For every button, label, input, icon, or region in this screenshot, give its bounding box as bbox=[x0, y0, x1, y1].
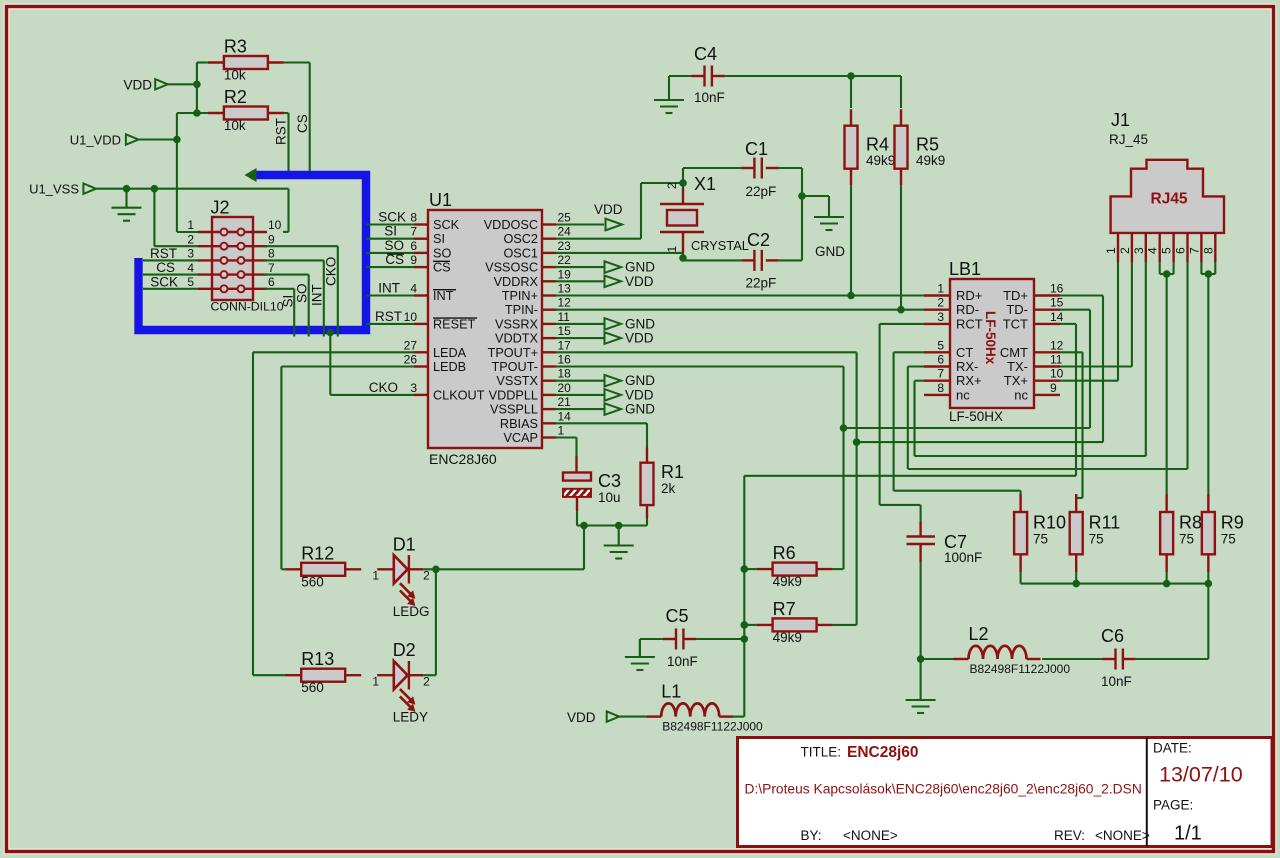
svg-text:INT: INT bbox=[433, 289, 454, 303]
svg-text:D:\Proteus Kapcsolások\ENC28j6: D:\Proteus Kapcsolások\ENC28j60\enc28j60… bbox=[745, 782, 1142, 797]
svg-text:49k9: 49k9 bbox=[866, 153, 895, 168]
wire R7 right bbox=[833, 624, 857, 626]
svg-text:10k: 10k bbox=[224, 68, 246, 83]
svg-text:6: 6 bbox=[410, 239, 417, 253]
svg-text:9: 9 bbox=[1050, 381, 1057, 395]
svg-text:49k9: 49k9 bbox=[773, 630, 802, 645]
wire RX- to J1 pin6 bbox=[908, 262, 1188, 469]
svg-text:2: 2 bbox=[1118, 247, 1132, 254]
capacitor C1 bbox=[683, 139, 779, 199]
svg-text:8: 8 bbox=[268, 247, 275, 261]
svg-text:16: 16 bbox=[1050, 282, 1064, 296]
svg-text:3: 3 bbox=[1132, 247, 1146, 254]
svg-text:15: 15 bbox=[1050, 296, 1064, 310]
svg-text:VSSTX: VSSTX bbox=[496, 374, 538, 388]
wire TPOUT- bbox=[556, 367, 847, 570]
resistor R3 bbox=[208, 37, 284, 83]
svg-text:RST: RST bbox=[150, 246, 177, 261]
svg-text:INT: INT bbox=[310, 284, 325, 306]
svg-text:RCT: RCT bbox=[956, 316, 983, 331]
svg-text:C6: C6 bbox=[1101, 626, 1124, 646]
svg-text:RESET: RESET bbox=[433, 317, 476, 331]
svg-text:SI: SI bbox=[384, 224, 397, 239]
svg-text:LEDB: LEDB bbox=[433, 360, 466, 374]
svg-text:R8: R8 bbox=[1179, 513, 1202, 533]
wire J2 pin5 SCK bbox=[143, 274, 198, 289]
svg-text:CLKOUT: CLKOUT bbox=[433, 388, 485, 402]
terminal VDD L1 bbox=[567, 710, 646, 725]
svg-text:nc: nc bbox=[1014, 387, 1028, 402]
svg-text:2: 2 bbox=[423, 569, 430, 583]
svg-text:1: 1 bbox=[937, 282, 944, 296]
svg-text:SO: SO bbox=[433, 246, 451, 260]
svg-text:PAGE:: PAGE: bbox=[1153, 798, 1193, 813]
svg-text:10k: 10k bbox=[224, 118, 246, 133]
svg-text:CKO: CKO bbox=[324, 257, 339, 286]
ground U1_VSS bbox=[112, 189, 142, 221]
svg-text:10: 10 bbox=[268, 218, 282, 232]
wire U1_VDD net bbox=[138, 113, 208, 232]
title block bbox=[738, 738, 1273, 847]
svg-text:2: 2 bbox=[937, 296, 944, 310]
wire bus-CS bbox=[366, 252, 414, 267]
svg-text:10nF: 10nF bbox=[1101, 674, 1132, 689]
svg-text:SCK: SCK bbox=[150, 274, 178, 289]
svg-text:REV:: REV: bbox=[1054, 828, 1085, 843]
wire D1 cathode node bbox=[423, 526, 584, 574]
terminal U1_VSS bbox=[29, 182, 96, 197]
resistor R2 bbox=[208, 87, 284, 133]
svg-text:B82498F1122J000: B82498F1122J000 bbox=[970, 662, 1071, 676]
wire TPIN- bbox=[556, 309, 924, 311]
svg-text:560: 560 bbox=[301, 680, 324, 695]
capacitor C5 bbox=[640, 606, 698, 669]
svg-text:VSSOSC: VSSOSC bbox=[485, 261, 538, 275]
wire J1 pins7+8 to R9 bbox=[1201, 262, 1215, 494]
power terminal GND pin-row 7 bbox=[556, 316, 655, 331]
svg-text:U1_VSS: U1_VSS bbox=[29, 182, 79, 197]
svg-text:2: 2 bbox=[187, 232, 194, 246]
wire VDD-R2R3 bbox=[168, 63, 208, 117]
wire C3/R1 ground node bbox=[577, 511, 647, 529]
svg-text:7: 7 bbox=[937, 367, 944, 381]
svg-text:C4: C4 bbox=[694, 44, 717, 64]
inductor L2 bbox=[954, 624, 1071, 676]
svg-text:10: 10 bbox=[404, 310, 418, 324]
svg-text:TPOUT+: TPOUT+ bbox=[488, 346, 538, 360]
svg-text:15: 15 bbox=[558, 324, 572, 338]
svg-text:RD-: RD- bbox=[956, 302, 979, 317]
svg-text:9: 9 bbox=[410, 253, 417, 267]
ground C3 bbox=[604, 526, 634, 559]
svg-text:1: 1 bbox=[372, 569, 379, 583]
svg-text:VDD: VDD bbox=[625, 387, 654, 402]
svg-text:26: 26 bbox=[404, 353, 418, 367]
power terminal VDD pin25 bbox=[556, 202, 623, 230]
svg-text:75: 75 bbox=[1089, 532, 1104, 547]
svg-text:5: 5 bbox=[187, 275, 194, 289]
svg-text:J2: J2 bbox=[211, 198, 230, 218]
svg-text:100nF: 100nF bbox=[944, 550, 982, 565]
wire C6-R9 bbox=[1136, 658, 1208, 660]
wire bus-INT bbox=[366, 281, 414, 296]
svg-text:INT: INT bbox=[378, 281, 400, 296]
svg-text:CS: CS bbox=[156, 260, 175, 275]
svg-text:17: 17 bbox=[558, 338, 572, 352]
svg-text:5: 5 bbox=[1160, 247, 1174, 254]
svg-text:SO: SO bbox=[295, 283, 310, 303]
svg-text:R10: R10 bbox=[1033, 513, 1066, 533]
wire C5-R7 node bbox=[696, 638, 744, 640]
svg-text:6: 6 bbox=[268, 275, 275, 289]
svg-text:10nF: 10nF bbox=[694, 90, 725, 105]
svg-text:ENC28j60: ENC28j60 bbox=[847, 744, 919, 761]
svg-text:TPIN+: TPIN+ bbox=[502, 289, 538, 303]
svg-text:L2: L2 bbox=[969, 624, 989, 644]
svg-text:TCT: TCT bbox=[1003, 316, 1028, 331]
wire CS pullup bbox=[284, 63, 310, 178]
wire R12 left bbox=[281, 568, 285, 570]
svg-text:14: 14 bbox=[558, 409, 572, 423]
svg-text:VDD: VDD bbox=[594, 202, 623, 217]
wire TPIN+ bbox=[556, 294, 924, 296]
svg-text:1/1: 1/1 bbox=[1174, 823, 1202, 845]
svg-text:LEDY: LEDY bbox=[393, 710, 428, 725]
svg-text:VSSPLL: VSSPLL bbox=[490, 403, 538, 417]
svg-text:SO: SO bbox=[384, 238, 404, 253]
terminal U1_VDD bbox=[70, 133, 139, 148]
svg-text:8: 8 bbox=[937, 381, 944, 395]
svg-text:12: 12 bbox=[1050, 338, 1064, 352]
svg-text:VDDRX: VDDRX bbox=[494, 275, 539, 289]
svg-text:SCK: SCK bbox=[433, 218, 460, 232]
svg-text:U1: U1 bbox=[429, 190, 452, 210]
svg-text:RST: RST bbox=[274, 118, 289, 145]
svg-text:10u: 10u bbox=[598, 490, 621, 505]
wire bus-SO bbox=[366, 238, 414, 253]
svg-text:1: 1 bbox=[665, 246, 679, 253]
power terminal VDD pin-row 12 bbox=[556, 387, 654, 402]
svg-text:R6: R6 bbox=[773, 543, 796, 563]
svg-text:4: 4 bbox=[187, 261, 194, 275]
svg-text:RST: RST bbox=[375, 309, 402, 324]
wire TD- bbox=[844, 310, 1091, 428]
resistor R13 bbox=[285, 649, 361, 695]
svg-text:R11: R11 bbox=[1089, 513, 1121, 533]
resistor R9 bbox=[1202, 494, 1244, 584]
capacitor C3 (polarized) bbox=[563, 456, 621, 511]
svg-text:X1: X1 bbox=[694, 174, 716, 194]
svg-text:VSSRX: VSSRX bbox=[495, 317, 539, 331]
svg-text:22pF: 22pF bbox=[746, 276, 777, 291]
svg-text:nc: nc bbox=[956, 387, 970, 402]
svg-text:VDD: VDD bbox=[124, 78, 153, 93]
svg-text:3: 3 bbox=[410, 381, 417, 395]
svg-text:VCAP: VCAP bbox=[503, 431, 538, 445]
LED D2 bbox=[372, 640, 430, 725]
svg-text:C7: C7 bbox=[944, 532, 967, 552]
svg-text:VDDTX: VDDTX bbox=[495, 332, 539, 346]
capacitor C2 bbox=[683, 230, 779, 291]
wire TX- to J1 pin2 bbox=[1060, 262, 1132, 367]
wire R5-TPIN- bbox=[897, 185, 905, 313]
svg-text:TPOUT-: TPOUT- bbox=[491, 360, 538, 374]
wire J2 pin6 SI bbox=[264, 289, 296, 337]
svg-text:11: 11 bbox=[1050, 353, 1063, 367]
svg-text:BY:: BY: bbox=[801, 828, 822, 843]
svg-text:12: 12 bbox=[558, 296, 572, 310]
svg-text:7: 7 bbox=[1187, 247, 1201, 254]
svg-text:5: 5 bbox=[937, 338, 944, 352]
svg-text:22pF: 22pF bbox=[746, 184, 777, 199]
svg-text:VDD: VDD bbox=[625, 274, 654, 289]
wire R bottoms rail bbox=[1021, 580, 1213, 659]
svg-text:RJ_45: RJ_45 bbox=[1109, 132, 1148, 147]
connector J2 CONN-DIL10 bbox=[187, 198, 283, 314]
svg-text:4: 4 bbox=[1146, 247, 1160, 254]
wire C4 rail bbox=[725, 72, 901, 108]
svg-text:SCK: SCK bbox=[378, 210, 406, 225]
wire RX+ to J1 pin3 bbox=[915, 262, 1146, 456]
svg-text:9: 9 bbox=[268, 232, 275, 246]
connector J1 RJ45 bbox=[1104, 110, 1224, 262]
wire C1-C2 right / GND branch bbox=[779, 168, 829, 260]
svg-text:OSC2: OSC2 bbox=[503, 232, 538, 246]
svg-text:6: 6 bbox=[1174, 247, 1188, 254]
svg-text:R1: R1 bbox=[661, 462, 684, 482]
svg-text:J1: J1 bbox=[1111, 110, 1130, 130]
svg-text:1: 1 bbox=[372, 675, 379, 689]
svg-text:16: 16 bbox=[558, 353, 572, 367]
svg-text:SI: SI bbox=[281, 295, 296, 308]
resistor R10 bbox=[1014, 494, 1066, 584]
svg-text:49k9: 49k9 bbox=[773, 574, 802, 589]
svg-text:VDDPLL: VDDPLL bbox=[489, 388, 538, 402]
wire J2 pin3 RST bbox=[143, 246, 198, 261]
svg-text:3: 3 bbox=[187, 247, 194, 261]
wire J2 pin7 SO bbox=[264, 275, 310, 337]
svg-text:25: 25 bbox=[558, 211, 572, 225]
svg-text:GND: GND bbox=[815, 244, 845, 259]
wire RCT-C7 bbox=[880, 324, 924, 505]
svg-text:20: 20 bbox=[558, 381, 572, 395]
IC U1 ENC28J60 bbox=[404, 190, 542, 467]
svg-text:RJ45: RJ45 bbox=[1151, 191, 1188, 208]
svg-text:6: 6 bbox=[937, 353, 944, 367]
wire R4-TPIN+ bbox=[847, 185, 855, 299]
svg-text:VDD: VDD bbox=[625, 331, 654, 346]
svg-text:R3: R3 bbox=[224, 37, 247, 57]
svg-text:<NONE>: <NONE> bbox=[843, 828, 898, 843]
wire LEDA (to R13) bbox=[253, 352, 414, 675]
svg-text:8: 8 bbox=[410, 211, 417, 225]
svg-text:7: 7 bbox=[410, 225, 417, 239]
svg-text:CT: CT bbox=[956, 345, 973, 360]
wire J1 pins4+5 to R8 bbox=[1160, 262, 1174, 494]
wire D2 cathode bbox=[423, 569, 436, 675]
svg-text:L1: L1 bbox=[661, 682, 681, 702]
svg-text:10nF: 10nF bbox=[667, 654, 698, 669]
resistor R6 bbox=[757, 543, 833, 589]
svg-text:RX+: RX+ bbox=[956, 373, 982, 388]
svg-text:B82498F1122J000: B82498F1122J000 bbox=[662, 720, 763, 734]
svg-text:TPIN-: TPIN- bbox=[505, 303, 538, 317]
power terminal GND pin-row 3 bbox=[556, 260, 655, 275]
svg-text:TD-: TD- bbox=[1006, 302, 1028, 317]
svg-text:CONN-DIL10: CONN-DIL10 bbox=[211, 300, 284, 314]
svg-text:OSC1: OSC1 bbox=[503, 246, 538, 260]
resistor R12 bbox=[285, 543, 361, 589]
resistor R7 bbox=[757, 599, 833, 645]
capacitor C4 bbox=[669, 44, 725, 105]
svg-text:8: 8 bbox=[1201, 247, 1215, 254]
svg-text:11: 11 bbox=[558, 310, 571, 324]
svg-text:D2: D2 bbox=[393, 640, 416, 660]
svg-text:18: 18 bbox=[558, 367, 572, 381]
svg-text:TX+: TX+ bbox=[1004, 373, 1028, 388]
svg-text:49k9: 49k9 bbox=[916, 153, 945, 168]
wire bus-RST bbox=[366, 309, 414, 324]
svg-text:GND: GND bbox=[625, 260, 655, 275]
svg-text:CKO: CKO bbox=[369, 380, 398, 395]
svg-text:LEDA: LEDA bbox=[433, 346, 467, 360]
svg-text:GND: GND bbox=[625, 316, 655, 331]
ground C4 bbox=[654, 76, 684, 113]
capacitor C6 bbox=[1042, 626, 1136, 689]
wire bus-SCK bbox=[366, 210, 414, 225]
svg-text:22: 22 bbox=[558, 253, 572, 267]
wire TCT net (L1/C5/R6/R7 common) bbox=[733, 476, 1077, 717]
wire CT-R10 bbox=[894, 352, 1021, 494]
wire CKO (bus to CLKOUT) bbox=[327, 329, 415, 395]
svg-text:CMT: CMT bbox=[1000, 345, 1028, 360]
svg-text:560: 560 bbox=[301, 574, 324, 589]
wire TPOUT+ bbox=[556, 352, 860, 625]
svg-text:D1: D1 bbox=[393, 534, 416, 554]
svg-text:TX-: TX- bbox=[1007, 359, 1028, 374]
svg-text:R12: R12 bbox=[301, 543, 334, 563]
svg-text:2: 2 bbox=[423, 675, 430, 689]
svg-text:27: 27 bbox=[404, 338, 418, 352]
svg-text:LB1: LB1 bbox=[949, 259, 981, 279]
svg-text:C1: C1 bbox=[745, 139, 768, 159]
bus (thick blue wire) bbox=[139, 168, 367, 330]
wire J2 pin9 CKO bbox=[264, 246, 339, 336]
svg-text:75: 75 bbox=[1179, 532, 1194, 547]
svg-text:13/07/10: 13/07/10 bbox=[1159, 763, 1243, 787]
svg-text:3: 3 bbox=[937, 310, 944, 324]
svg-text:2k: 2k bbox=[661, 481, 676, 496]
resistor R11 bbox=[1070, 494, 1121, 584]
resistor R4 bbox=[845, 109, 896, 185]
svg-text:<NONE>: <NONE> bbox=[1095, 828, 1150, 843]
svg-text:C3: C3 bbox=[598, 471, 621, 491]
svg-text:19: 19 bbox=[558, 267, 572, 281]
transformer LB1 LF-50HX bbox=[924, 259, 1064, 424]
svg-text:2: 2 bbox=[665, 182, 679, 189]
svg-text:C5: C5 bbox=[666, 606, 689, 626]
wire RST pullup bbox=[274, 113, 289, 177]
svg-text:1: 1 bbox=[187, 218, 194, 232]
svg-text:23: 23 bbox=[558, 239, 572, 253]
resistor R8 bbox=[1160, 494, 1202, 584]
wire C7-L2 bbox=[921, 658, 954, 660]
svg-text:21: 21 bbox=[558, 395, 572, 409]
svg-text:CS: CS bbox=[295, 114, 310, 133]
svg-text:R9: R9 bbox=[1221, 513, 1244, 533]
wire TD+ bbox=[857, 296, 1103, 443]
power terminal VDD pin-row 8 bbox=[556, 331, 654, 346]
svg-text:R2: R2 bbox=[224, 87, 247, 107]
svg-text:CRYSTAL: CRYSTAL bbox=[691, 238, 749, 253]
power terminal VDD pin-row 4 bbox=[556, 274, 654, 289]
crystal X1 bbox=[660, 174, 749, 253]
terminal VDD bbox=[124, 78, 168, 93]
svg-text:24: 24 bbox=[558, 225, 572, 239]
ground C5 bbox=[625, 639, 655, 670]
svg-text:RBIAS: RBIAS bbox=[500, 417, 538, 431]
ground C7 bbox=[906, 682, 936, 713]
svg-text:TITLE:: TITLE: bbox=[801, 745, 842, 760]
svg-text:RX-: RX- bbox=[956, 359, 978, 374]
resistor R1 bbox=[641, 448, 685, 519]
wire J2 pin4 CS bbox=[143, 260, 198, 275]
capacitor C7 bbox=[907, 505, 983, 682]
svg-text:U1_VDD: U1_VDD bbox=[70, 133, 121, 148]
svg-text:RD+: RD+ bbox=[956, 288, 982, 303]
power terminal GND pin-row 13 bbox=[556, 402, 655, 417]
svg-text:1: 1 bbox=[1104, 247, 1118, 254]
svg-text:SI: SI bbox=[433, 232, 445, 246]
wire VCAP-C3 bbox=[556, 438, 577, 457]
svg-text:DATE:: DATE: bbox=[1153, 741, 1192, 756]
svg-text:13: 13 bbox=[558, 282, 572, 296]
svg-text:C2: C2 bbox=[747, 230, 770, 250]
svg-text:LF-50Hx: LF-50Hx bbox=[983, 311, 998, 365]
svg-text:CS: CS bbox=[433, 261, 451, 275]
svg-text:75: 75 bbox=[1221, 532, 1236, 547]
svg-text:LEDG: LEDG bbox=[393, 604, 430, 619]
svg-text:10: 10 bbox=[1050, 367, 1064, 381]
svg-text:VDDOSC: VDDOSC bbox=[484, 218, 538, 232]
svg-text:R4: R4 bbox=[866, 135, 889, 155]
svg-text:GND: GND bbox=[625, 373, 655, 388]
inductor L1 bbox=[646, 682, 763, 734]
LED D1 bbox=[372, 534, 430, 619]
wire LEDB (to R12) bbox=[281, 367, 414, 570]
svg-text:14: 14 bbox=[1050, 310, 1064, 324]
svg-text:R5: R5 bbox=[916, 135, 939, 155]
resistor R5 bbox=[895, 109, 946, 185]
wire J2 pin8 INT bbox=[264, 260, 325, 336]
wire OSC1-X1 bbox=[556, 253, 687, 262]
wire bus-SI bbox=[366, 224, 414, 239]
svg-text:7: 7 bbox=[268, 261, 275, 275]
wire RBIAS-R1 bbox=[556, 423, 647, 447]
svg-text:R13: R13 bbox=[301, 649, 334, 669]
wire CMT-R11 bbox=[1060, 352, 1083, 502]
svg-text:GND: GND bbox=[625, 402, 655, 417]
svg-text:ENC28J60: ENC28J60 bbox=[429, 451, 497, 467]
wire TCT bbox=[1060, 324, 1076, 476]
svg-text:4: 4 bbox=[410, 282, 417, 296]
svg-text:TD+: TD+ bbox=[1003, 288, 1028, 303]
wire U1_VSS net bbox=[96, 185, 289, 246]
svg-text:R7: R7 bbox=[773, 599, 796, 619]
svg-text:VDD: VDD bbox=[567, 710, 596, 725]
wire R6 right bbox=[833, 568, 844, 570]
wire OSC2-X1 bbox=[556, 179, 687, 239]
